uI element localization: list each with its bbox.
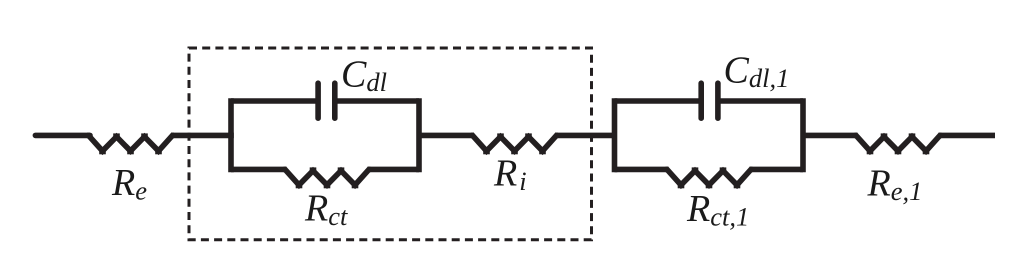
wire block2 top branch right segment	[721, 98, 804, 104]
resistor R_i (zigzag)	[471, 133, 558, 154]
wire block1 top branch left segment	[231, 98, 316, 104]
wire block1 bottom branch right segment	[368, 167, 420, 173]
dashed boundary box	[189, 48, 592, 240]
svg-text:Ri: Ri	[493, 153, 527, 197]
svg-text:Re,1: Re,1	[867, 163, 923, 207]
wire block2 bottom branch left segment	[615, 167, 669, 173]
wire block1 right vertical edge	[416, 101, 422, 169]
capacitor C_dl plates	[318, 83, 335, 118]
wire block2 bottom branch right segment	[750, 167, 804, 173]
resistor R_ct (zigzag)	[284, 167, 371, 188]
node block1 input junction	[228, 133, 234, 139]
wire block1 output to R_i	[419, 133, 474, 139]
wire block2 output to R_e,1	[803, 133, 858, 139]
wire block1 top branch right segment	[337, 98, 419, 104]
wire block2 right vertical edge	[800, 101, 806, 169]
wire left input lead	[35, 133, 90, 139]
wire R_i to block 2	[555, 133, 615, 139]
svg-text:Re: Re	[111, 162, 147, 206]
resistor R_ct,1 (zigzag)	[666, 167, 753, 188]
wire block2 top branch left segment	[615, 98, 699, 104]
capacitor C_dl,1 plates	[701, 83, 718, 118]
wire block1 bottom branch left segment	[231, 167, 287, 173]
resistor R_e (zigzag)	[87, 133, 174, 154]
wire block2 left vertical edge	[612, 101, 618, 169]
wire block1 left vertical edge	[228, 101, 234, 169]
resistor R_e,1 (zigzag)	[855, 133, 942, 154]
svg-text:Rct,1: Rct,1	[686, 188, 749, 232]
svg-text:Cdl: Cdl	[341, 54, 387, 98]
wire right output lead	[939, 133, 996, 139]
svg-text:Cdl,1: Cdl,1	[724, 50, 790, 94]
wire from R_e to block 1	[171, 133, 231, 139]
svg-text:Rct: Rct	[304, 188, 348, 232]
